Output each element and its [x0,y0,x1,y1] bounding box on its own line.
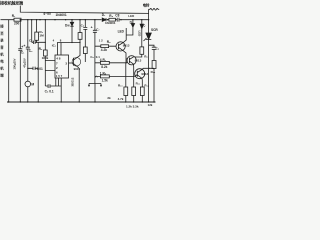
wire: C5 wire [45,86,61,102]
wire: vertical x=27.8 with C2 and motor M [27,20,29,102]
junction dots on ground rail [8,101,9,102]
svg-text:C8: C8 [115,13,119,17]
svg-text:R₁₁: R₁₁ [136,82,141,86]
svg-text:R₁₄: R₁₄ [151,70,156,74]
wire: main top rail [1,19,149,21]
svg-text:1 2: 1 2 [99,38,103,42]
svg-text:200: 200 [14,22,20,26]
svg-text:LED: LED [138,31,142,37]
capacitor C4 plates [33,67,35,70]
wire: header bar bottom [89,84,101,103]
resistor R13 [152,61,156,69]
svg-text:2k: 2k [107,96,111,100]
svg-text:1N4001: 1N4001 [56,13,67,17]
svg-text:SCR: SCR [151,28,158,32]
svg-text:C₂: C₂ [29,49,33,53]
svg-text:接收机触发端: 接收机触发端 [0,0,23,6]
resistor R9 [140,47,144,54]
resistor R2 [35,32,39,40]
wire: V1 emitter down [78,67,79,102]
wire: R2 vertical [36,20,38,43]
wire: V4 collector to x154 column [142,68,154,69]
svg-text:DW: DW [65,23,70,27]
diode D1 [102,18,106,21]
wire: row3 to V4 [95,75,135,77]
capacitor C2 plates [26,47,30,49]
wire: IC pin3 to V1 base [69,62,74,64]
svg-text:IC₁: IC₁ [52,44,57,48]
resistor R6 [101,45,109,48]
wire: R9 to V3 collector [135,54,142,57]
wire: vertical x=45.3 [44,20,46,86]
resistor R1 [14,18,21,21]
svg-text:+: + [23,44,25,48]
wire: V3 base link [126,58,127,63]
capacitor C3 plates [33,41,35,44]
resistor R4b [83,47,87,54]
wire: IC top stubs to y42.5 wire [58,43,81,56]
svg-text:M: M [31,82,34,86]
svg-text:R₁₀: R₁₀ [118,84,123,88]
wire: vertical x=38.2 to bottom [37,42,39,102]
op-amp IC1 555 box [55,55,69,78]
transistor V3 [127,56,136,65]
transistor V2 [116,42,125,51]
svg-text:4.2k: 4.2k [101,48,107,52]
wire: V2 collector up [123,28,127,43]
svg-text:47μ25V: 47μ25V [22,58,26,68]
capacitor C1 plates [18,49,22,51]
resistor R4 [78,33,82,40]
junction dots mid circuit [36,42,37,43]
capacitor C7 plates [93,30,97,32]
capacitor C6 plates [83,27,87,29]
svg-text:9013: 9013 [141,72,148,76]
wire: row2 to V3 [95,62,126,64]
wire: V2 emitter to V3 base [123,50,127,63]
svg-text:D₂: D₂ [130,21,134,25]
wire: bell feed vertical [148,9,150,19]
svg-text:180k: 180k [42,56,49,60]
wire: bottom ground rail [7,101,156,103]
svg-text:电铃: 电铃 [143,2,150,7]
wire: left main vertical [8,20,10,102]
resistor R11 [132,87,136,96]
svg-text:R₃: R₃ [39,47,43,51]
svg-text:+: + [91,25,93,29]
wire: vertical x=31.7 to C3 wire [31,20,33,43]
svg-text:R₁₂: R₁₂ [144,84,149,88]
wire: upper supply wire [20,6,148,14]
thyristor SCR [148,20,150,33]
bell coil [149,8,160,10]
svg-text:LED: LED [128,14,134,18]
svg-text:9013: 9013 [123,44,130,48]
svg-text:C₄: C₄ [29,38,33,42]
svg-text:9013: 9013 [135,58,142,62]
capacitor C5 plates [48,84,50,88]
diode D2 vertical [126,20,133,35]
zener DW vertical [71,20,73,43]
resistor R3 [44,50,48,56]
svg-text:LED: LED [118,30,125,34]
resistor R12 [140,87,144,96]
svg-text:1 R₈: 1 R₈ [100,71,107,75]
svg-text:R₅: R₅ [109,14,113,18]
svg-text:4.7k: 4.7k [118,97,124,101]
junction dots on top rail [20,19,21,20]
resistor R7 [100,61,109,64]
wire: C4 horizontal wire [28,67,38,69]
svg-text:6~9V: 6~9V [44,12,52,16]
svg-text:3DG12: 3DG12 [70,77,74,86]
motor M [25,81,31,87]
resistor R8 [100,75,109,78]
svg-text:1.2k 3.3k: 1.2k 3.3k [126,105,139,109]
wire: trigger vertical x=20.3 with C1 gap [19,20,21,102]
svg-text:12k: 12k [148,103,153,107]
svg-text:4 R₇: 4 R₇ [100,58,107,62]
svg-text:1 5 7: 1 5 7 [56,74,63,78]
svg-text:0.01: 0.01 [37,67,43,71]
resistor R10 [124,87,128,96]
wire: row1 to V2 [95,45,116,47]
svg-text:100μ25V: 100μ25V [13,58,17,69]
svg-text:1M: 1M [39,33,44,37]
transistor V4 [135,69,145,79]
wire: vertical x=94.9 with C7 [94,20,96,84]
svg-text:1N4001: 1N4001 [105,21,116,25]
svg-text:8.2k: 8.2k [101,65,107,69]
svg-text:C₅ 0.1: C₅ 0.1 [45,89,54,93]
capacitor C9 vertical [149,45,154,102]
svg-text:4 8: 4 8 [56,57,61,61]
wire: IC left stubs [45,61,55,71]
svg-text:1.5k: 1.5k [102,78,108,82]
LED vertical [141,20,143,47]
wire: V3 emitter down [133,64,135,87]
wire: V1 collector to R4 [78,43,80,57]
wire: V4 emitter down [141,78,143,87]
text labels [0,0,160,109]
transistor V1 [72,58,81,67]
wire: IC bottom stubs [56,78,61,86]
resistor R5 [109,18,116,21]
wire: C3 horizontal wire [32,41,46,43]
capacitor C8 [117,18,119,22]
svg-text:9014: 9014 [74,67,81,71]
svg-text:R₆: R₆ [107,40,111,44]
wire: vertical x=85.3 with C6 [84,20,86,62]
